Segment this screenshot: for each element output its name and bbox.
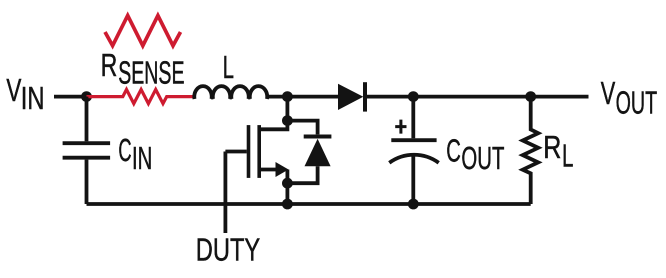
body diode cathode bar [304,135,332,139]
rectifier diode cathode bar [363,82,367,111]
svg-text:V: V [601,75,616,111]
node: switch node top [282,91,293,102]
svg-text:IN: IN [132,140,152,176]
label VOUT [601,75,657,121]
node: COUT top [408,91,419,102]
svg-text:R: R [101,47,118,83]
resistor RSENSE (red, in series) with red wire segments [87,90,194,104]
node: drain junction [282,115,293,126]
capacitor CIN top lead [85,97,89,142]
wire inductor to diode [266,95,339,99]
svg-text:V: V [6,72,21,108]
body diode triangle [305,139,331,167]
rectifier diode triangle [338,84,363,110]
node: RL top [525,91,536,102]
body diode cathode lead [287,121,317,135]
wire switch node down to drain junction [285,97,289,121]
capacitor COUT bottom lead [411,155,415,204]
label COUT [446,132,504,176]
svg-text:R: R [543,129,561,165]
svg-text:SENSE: SENSE [118,55,184,91]
resistor RL [523,97,539,204]
capacitor CIN bottom plate [63,156,111,160]
capacitor COUT plus sign [395,120,406,134]
label VIN [6,72,44,116]
node: source-to-rail junction [282,199,293,210]
sense highlight zigzag (decorative red resistor symbol above RSENSE) [105,16,181,46]
label CIN [118,132,152,176]
MOSFET source lead with arrow [259,162,288,204]
node: input junction [81,91,92,102]
svg-text:C: C [118,132,131,168]
label RL [543,129,573,174]
MOSFET gate plate [247,125,251,178]
wire diode to VOUT [367,95,589,99]
svg-text:OUT: OUT [616,85,658,121]
node: source junction [282,178,293,189]
svg-text:DUTY: DUTY [196,231,260,267]
DUTY riser wire [223,152,227,234]
MOSFET gate lead [225,150,246,154]
svg-text:L: L [223,49,234,85]
capacitor CIN top plate [63,141,111,145]
wire VIN to input node [54,95,87,99]
svg-text:IN: IN [21,80,45,116]
ground return rail [87,202,531,206]
inductor L [194,86,267,99]
MOSFET channel plate [257,125,261,178]
node: COUT bottom junction [408,199,419,210]
MOSFET drain lead [259,121,287,130]
capacitor CIN bottom lead [85,160,89,204]
body diode anode lead [287,166,317,183]
capacitor COUT curved plate [389,155,438,163]
label RSENSE [101,47,185,91]
capacitor COUT top plate [391,138,436,142]
capacitor COUT top lead [411,97,415,139]
svg-text:C: C [446,132,461,168]
svg-text:L: L [562,138,573,174]
svg-text:OUT: OUT [461,140,504,176]
